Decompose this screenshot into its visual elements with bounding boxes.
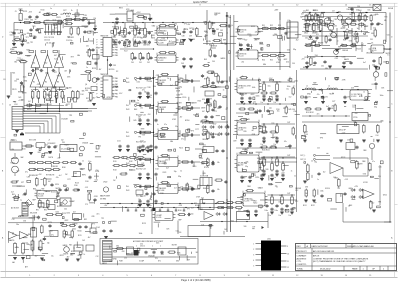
ground (374, 67, 378, 69)
svg-text:1n: 1n (357, 28, 359, 30)
svg-text:R123: R123 (357, 49, 361, 51)
svg-text:IC-U81: IC-U81 (159, 109, 164, 111)
antenna J1 (19, 9, 23, 21)
svg-text:68k: 68k (27, 33, 30, 35)
svg-text:100n: 100n (287, 50, 291, 52)
component cluster detail (111, 214, 194, 235)
feedback wire (157, 129, 159, 131)
capacitor Cq2 (248, 144, 251, 148)
capacitor C31c (128, 41, 131, 45)
svg-text:NE5532: NE5532 (159, 188, 166, 190)
svg-text:P: P (97, 93, 98, 95)
IC U2C (155, 55, 179, 63)
svg-text:CITY:: CITY: (297, 261, 302, 263)
junction (192, 22, 193, 23)
svg-text:10k: 10k (167, 183, 170, 185)
svg-text:47u: 47u (149, 205, 152, 207)
svg-text:R48: R48 (204, 59, 207, 61)
capacitor Cc10 (138, 119, 141, 123)
electrolytic capacitor CE2 (206, 99, 210, 104)
component cluster detail (135, 78, 209, 211)
svg-text:C41: C41 (139, 62, 142, 64)
capacitor C101 (37, 216, 40, 220)
junction (271, 161, 272, 162)
capacitor Cq3 (370, 22, 373, 26)
svg-text:C: C (144, 246, 145, 248)
junction (389, 121, 390, 122)
svg-text:10k: 10k (246, 162, 249, 164)
svg-text:1N4148: 1N4148 (61, 119, 67, 121)
svg-text:U27: U27 (73, 211, 76, 213)
component cluster detail (19, 10, 93, 35)
wire (35, 87, 37, 91)
Q2 leads (341, 20, 345, 22)
diode D20 (351, 189, 356, 192)
capacitor C103 (187, 213, 191, 216)
component cluster detail (239, 78, 302, 208)
svg-text:2k2: 2k2 (317, 148, 320, 150)
ground (342, 67, 346, 69)
resistor Ry1 (70, 27, 72, 36)
svg-text:GND: GND (307, 93, 312, 95)
ferrite (75, 13, 79, 16)
resistor Rz22 (51, 14, 59, 16)
ground (146, 151, 150, 153)
svg-text:IN L: IN L (126, 78, 129, 80)
resistor R92a (55, 90, 58, 100)
svg-text:09-26-2002: 09-26-2002 (320, 269, 331, 271)
resistor R78 (307, 164, 310, 174)
IC U18 (336, 194, 343, 203)
component cluster detail (111, 26, 155, 48)
svg-text:REF2: REF2 (82, 175, 86, 177)
svg-text:C56: C56 (378, 167, 381, 169)
diode D23 (359, 196, 364, 199)
capacitor Cb1b (248, 139, 251, 143)
junction (276, 123, 277, 124)
svg-text:22k: 22k (315, 32, 318, 34)
component cluster detail (109, 245, 180, 263)
component cluster detail (301, 9, 391, 69)
ground (321, 102, 325, 104)
svg-text:47u: 47u (372, 161, 375, 163)
svg-text:R92: R92 (44, 210, 47, 212)
resistor R80b (356, 160, 359, 170)
component cluster detail (12, 56, 30, 102)
wire (178, 161, 200, 163)
svg-text:1N4148: 1N4148 (211, 46, 217, 48)
svg-text:1n: 1n (131, 253, 133, 255)
IC U31 (filled package) (253, 239, 289, 271)
svg-text:REF: REF (362, 161, 365, 163)
wire (343, 175, 368, 177)
svg-text:C130: C130 (259, 44, 263, 46)
ground (138, 124, 142, 126)
resistor Rv0 (131, 52, 134, 61)
wire (13, 23, 15, 45)
svg-text:2k2: 2k2 (185, 185, 188, 187)
component cluster detail (301, 73, 390, 142)
svg-text:C130: C130 (55, 212, 59, 214)
transistor Q4 (92, 78, 97, 83)
resistor Rb0 (240, 77, 249, 79)
svg-text:NE5532: NE5532 (159, 80, 166, 82)
junction (271, 194, 272, 195)
svg-text:1n: 1n (208, 80, 210, 82)
diode D12 (218, 133, 223, 136)
capacitor C53 (246, 43, 249, 47)
inductor L1 (305, 88, 315, 90)
resistor Rz39 (63, 230, 65, 239)
capacitor Ct0 (211, 81, 214, 85)
input resistor (29, 51, 34, 53)
svg-text:1k: 1k (36, 96, 38, 98)
svg-text:33p: 33p (149, 199, 152, 201)
svg-text:1N4148: 1N4148 (243, 119, 249, 121)
svg-text:R77: R77 (195, 129, 198, 131)
svg-text:10u: 10u (286, 89, 289, 91)
ground (270, 212, 274, 214)
IC U23 (74, 172, 81, 177)
ground (254, 215, 258, 217)
svg-text:10k: 10k (346, 29, 349, 31)
svg-text:R61: R61 (306, 10, 309, 12)
junction (282, 157, 283, 158)
svg-text:LC FILTER: LC FILTER (351, 94, 361, 96)
svg-text:33p: 33p (314, 161, 317, 163)
component cluster detail (244, 77, 297, 209)
input node (134, 158, 136, 160)
svg-text:R45: R45 (69, 245, 72, 247)
capacitor Cv2 (149, 56, 152, 60)
junction (226, 107, 227, 108)
wire (49, 98, 51, 103)
resistor Ry2 (320, 23, 328, 25)
junction (226, 134, 227, 135)
svg-text:100k: 100k (65, 21, 69, 23)
capacitor Cz22 (145, 192, 148, 196)
wire (302, 19, 322, 21)
wire (94, 20, 96, 29)
svg-text:47u: 47u (149, 178, 152, 180)
junction (261, 161, 262, 162)
svg-text:C89: C89 (91, 216, 94, 218)
resistor R54 (261, 54, 270, 56)
resistor Rr02 (235, 202, 244, 204)
svg-text:2k2: 2k2 (371, 202, 374, 204)
svg-text:MUTE: MUTE (172, 245, 178, 247)
svg-text:REF: REF (134, 109, 137, 111)
junction (309, 115, 310, 116)
component cluster detail (304, 148, 387, 212)
svg-text:1n: 1n (19, 20, 21, 22)
svg-text:MUTE: MUTE (201, 107, 205, 109)
junction (321, 115, 322, 116)
capacitor C60 (350, 7, 353, 11)
svg-text:4u7: 4u7 (142, 135, 145, 137)
op-amp U20 (30, 73, 41, 88)
ground (12, 44, 16, 46)
svg-text:5V6: 5V6 (174, 24, 177, 26)
heatsink bar (300, 68, 368, 70)
ground (376, 140, 380, 142)
svg-text:TP3: TP3 (32, 26, 35, 28)
svg-text:22k: 22k (140, 108, 143, 110)
resistor R99b (39, 240, 42, 252)
wire (316, 158, 330, 160)
junction (309, 12, 310, 13)
svg-text:R210: R210 (22, 149, 26, 151)
svg-text:COMP: COMP (156, 215, 162, 217)
svg-text:IC2: IC2 (372, 84, 375, 86)
svg-text:OPA2134: OPA2134 (238, 126, 246, 129)
svg-text:1k: 1k (212, 43, 214, 45)
svg-text:R163: R163 (113, 170, 117, 172)
junction (112, 22, 113, 23)
svg-text:+15V: +15V (187, 24, 191, 26)
wire (302, 12, 386, 14)
svg-text:DWG APLO-CAPLMAN-1400: DWG APLO-CAPLMAN-1400 (347, 245, 375, 248)
wire (262, 81, 296, 83)
svg-text:OUT_L: OUT_L (300, 155, 306, 157)
wire (35, 50, 37, 55)
svg-text:C89: C89 (278, 201, 281, 203)
svg-text:L10: L10 (60, 14, 63, 16)
resistor Rz19 (26, 104, 34, 106)
svg-text:1k: 1k (332, 93, 334, 95)
svg-text:D14: D14 (96, 227, 99, 229)
svg-text:2k2: 2k2 (241, 62, 244, 64)
resistor Rz13 (305, 108, 313, 110)
component cluster detail (85, 47, 101, 101)
svg-text:4k7: 4k7 (75, 16, 78, 18)
capacitor C15 (87, 21, 91, 24)
svg-text:C95: C95 (370, 39, 373, 41)
svg-text:33p: 33p (178, 176, 181, 178)
wire (107, 57, 109, 75)
wire (45, 89, 51, 91)
capacitor Co2 (190, 133, 194, 136)
resistor Rz12 (350, 44, 358, 46)
svg-text:47u: 47u (312, 57, 315, 59)
component cluster detail (242, 76, 298, 204)
svg-text:TP3: TP3 (320, 138, 323, 140)
ground (118, 150, 122, 152)
svg-text:OUT: OUT (287, 155, 290, 157)
component cluster detail (110, 243, 198, 266)
svg-text:R77: R77 (307, 107, 310, 109)
resistor Rz21 (43, 14, 51, 16)
resistor Rf0 (161, 73, 170, 75)
wire (178, 134, 200, 136)
svg-text:R160: R160 (62, 167, 66, 169)
svg-text:1n: 1n (226, 109, 228, 111)
svg-text:R210: R210 (149, 18, 153, 20)
svg-text:0R22: 0R22 (364, 26, 368, 28)
resistor Rz15 (334, 104, 336, 113)
resistor R91b (49, 90, 52, 100)
svg-text:B2: B2 (45, 82, 47, 84)
junction (276, 156, 277, 157)
resistor R82b (338, 178, 341, 188)
resistor R64 (359, 12, 362, 22)
svg-text:C130: C130 (342, 57, 346, 59)
svg-text:100n: 100n (110, 76, 114, 78)
inductor Lz1 (63, 13, 71, 15)
component cluster detail (305, 150, 383, 209)
resistor Ry1 (312, 23, 320, 25)
svg-text:PB3: PB3 (115, 47, 118, 49)
wire (115, 13, 127, 15)
resistor R100b (178, 214, 187, 216)
wire (100, 203, 232, 205)
svg-text:5V6: 5V6 (373, 66, 376, 68)
svg-text:+15V: +15V (104, 205, 108, 207)
resistor R38 (196, 27, 199, 37)
capacitor Cs4 (139, 185, 143, 188)
resistor Rz33 (62, 162, 70, 164)
capacitor Cy3 (83, 30, 86, 34)
svg-text:IC-U90: IC-U90 (238, 88, 243, 90)
junction (221, 221, 222, 222)
resistor R33 (144, 27, 147, 37)
IC U3 (236, 26, 261, 35)
svg-text:R210: R210 (202, 150, 206, 152)
resistor R36 (159, 25, 168, 27)
resistor Rb1 (240, 119, 249, 121)
diode D11 (210, 133, 215, 136)
svg-text:C240: C240 (74, 185, 78, 187)
IC U5 (369, 45, 387, 53)
svg-text:4k7: 4k7 (169, 41, 172, 43)
capacitor C84 (94, 62, 97, 66)
capacitor stub (127, 208, 129, 211)
IC U83 (156, 158, 181, 167)
resistor Rp12 (44, 169, 53, 171)
junction (153, 78, 154, 79)
signal arrow (262, 226, 265, 229)
svg-text:C12: C12 (12, 219, 15, 221)
svg-text:100k: 100k (63, 234, 67, 236)
transistor Q10 (328, 25, 333, 30)
svg-text:68k: 68k (14, 61, 17, 63)
feedback wire (157, 183, 159, 185)
svg-text:2k2: 2k2 (323, 171, 326, 173)
svg-text:R51: R51 (262, 25, 265, 27)
svg-text:1k: 1k (167, 78, 169, 80)
svg-text:PB0: PB0 (115, 39, 118, 41)
resistor Rz4 (364, 14, 366, 22)
resistor Rz23 (217, 75, 219, 84)
resistor Rn11 (263, 125, 266, 135)
resistor R79 (307, 172, 310, 182)
capacitor Cw143 (141, 145, 144, 149)
svg-text:C130: C130 (182, 97, 186, 99)
capacitor C31b (123, 41, 126, 45)
resistor Rp03 (52, 162, 61, 164)
capacitor Cc00 (138, 92, 141, 96)
wire (23, 125, 40, 127)
svg-text:C130: C130 (95, 171, 99, 173)
ground (240, 181, 244, 183)
resistor R56 (277, 54, 286, 56)
capacitor Co4 (190, 187, 194, 190)
svg-text:1k: 1k (84, 254, 86, 256)
svg-text:4k7: 4k7 (338, 49, 341, 51)
svg-text:J2: J2 (9, 105, 11, 107)
feedback wire (157, 102, 159, 104)
wire (47, 103, 49, 112)
resistor Rz7 (325, 35, 327, 44)
resistor R76 (363, 124, 366, 134)
resistor R104 (73, 18, 82, 20)
resistor R105 (65, 23, 74, 25)
svg-text:C12: C12 (156, 75, 159, 77)
svg-text:1k: 1k (263, 139, 265, 141)
resistor R83 (370, 200, 373, 210)
wire (10, 72, 12, 95)
svg-text:MUTE: MUTE (255, 39, 260, 41)
svg-text:R123: R123 (12, 89, 16, 91)
IC U82 (156, 131, 181, 140)
ground (280, 212, 284, 214)
svg-text:Page 1 of 2 (43.2kb 8MB): Page 1 of 2 (43.2kb 8MB) (181, 278, 211, 282)
svg-text:1N4148: 1N4148 (52, 166, 58, 168)
resistor Rz2 (317, 14, 319, 22)
resistor Rt3 (207, 158, 210, 168)
svg-text:PB4: PB4 (115, 50, 118, 52)
svg-text:R123: R123 (179, 78, 183, 80)
op-amp U11 (43, 55, 52, 68)
diode D1 (354, 33, 359, 36)
feedback wire (236, 153, 238, 155)
wire (302, 115, 350, 117)
capacitor Cn02 (275, 95, 278, 99)
capacitor Cc01 (146, 92, 149, 96)
junction (333, 115, 334, 116)
svg-text:4u7: 4u7 (363, 62, 366, 64)
svg-text:1n: 1n (294, 176, 296, 178)
svg-text:C56: C56 (367, 10, 370, 12)
wire (24, 111, 88, 113)
svg-text:2k2: 2k2 (332, 105, 335, 107)
wire (203, 43, 236, 45)
svg-text:TP3: TP3 (187, 208, 190, 210)
wire (342, 168, 344, 176)
svg-text:C56: C56 (65, 88, 68, 90)
svg-text:C12: C12 (22, 87, 25, 89)
junction (289, 147, 290, 148)
svg-text:0R22: 0R22 (383, 195, 387, 197)
resistor Rm272 (271, 162, 274, 172)
svg-text:100n: 100n (256, 96, 260, 98)
svg-text:D14: D14 (353, 105, 356, 107)
wire (178, 80, 200, 82)
resistor Rp01 (36, 162, 45, 164)
wire (14, 173, 16, 176)
svg-text:TP3: TP3 (69, 115, 72, 117)
ground (76, 259, 80, 261)
junction (279, 52, 280, 53)
IC U11 (203, 147, 214, 153)
svg-text:33p: 33p (245, 166, 248, 168)
svg-text:TP3: TP3 (384, 16, 387, 18)
diode D02 (218, 126, 223, 129)
resistor Rs2 (144, 131, 153, 133)
wire (341, 19, 368, 21)
feedback wire (157, 75, 159, 77)
junction (122, 22, 123, 23)
